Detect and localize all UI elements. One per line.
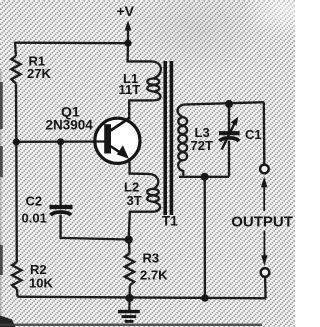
- output terminal bottom: [261, 268, 270, 277]
- Q1 emitter stroke: [111, 146, 127, 156]
- scan artifact bottom-left blob: [0, 316, 16, 327]
- transistor Q1 2N3904: [94, 118, 140, 164]
- node emitter/C2/R3 junction: [125, 236, 133, 244]
- node base-left junction: [13, 138, 20, 145]
- svg-text:R3: R3: [143, 250, 160, 265]
- node +V junction: [124, 40, 131, 47]
- node ground junction: [126, 294, 134, 302]
- svg-text:C1: C1: [245, 127, 262, 142]
- scan shading dark patch top-center: [124, 0, 268, 76]
- wire L1 bottom to Q1 collector: [129, 100, 153, 119]
- svg-text:10K: 10K: [29, 275, 53, 290]
- output terminal top: [260, 165, 269, 174]
- Q1 base lead: [94, 140, 105, 142]
- capacitor C1 (variable) plates: [219, 133, 240, 141]
- capacitor C2 plates: [50, 207, 73, 215]
- scan artifact left edge streak 3: [0, 245, 3, 275]
- C2 top plate: [50, 205, 73, 209]
- svg-text:OUTPUT: OUTPUT: [231, 214, 293, 231]
- svg-text:C2: C2: [26, 193, 43, 208]
- scan artifact left paper edge line: [0, 70, 2, 327]
- wire C1 bottom lead: [228, 141, 230, 177]
- svg-text:11T: 11T: [119, 82, 141, 97]
- ground bar 2: [122, 315, 137, 318]
- Q1 collector stroke: [111, 118, 131, 131]
- node C2 branch junction: [57, 138, 64, 145]
- resistor R1: [11, 56, 20, 84]
- transformer T1 core bar 2: [170, 61, 174, 215]
- +V arrow: [125, 21, 132, 31]
- ground bar 1: [118, 310, 140, 313]
- output down arrow: [261, 231, 267, 266]
- svg-text:0.01: 0.01: [22, 210, 47, 225]
- wire left rail middle segment (R1 to base junction): [15, 84, 18, 143]
- svg-text:27K: 27K: [27, 66, 51, 81]
- scan artifact left edge streak 2: [0, 146, 3, 177]
- resistor R2: [12, 262, 21, 289]
- wire C1 top lead: [228, 104, 230, 132]
- svg-text:2N3904: 2N3904: [46, 117, 94, 132]
- wire C2 bottom lead and horizontal to emitter junction: [61, 215, 129, 240]
- wire bottom rail: [18, 297, 267, 299]
- scan artifact left edge streak 1: [0, 82, 3, 129]
- svg-text:72T: 72T: [191, 138, 213, 153]
- C1 bottom plate (curved): [220, 138, 240, 141]
- ground: [118, 298, 140, 321]
- node tank top junction: [225, 100, 233, 108]
- wire output bottom terminal to bottom rail corner: [264, 277, 267, 298]
- wire Q1 emitter down and over to L2: [129, 161, 148, 174]
- wire tank top rail (L3 top to right corner): [183, 102, 263, 104]
- wire right corner down to output top terminal: [263, 102, 266, 164]
- wire +V lead: [127, 27, 129, 43]
- Q1 base bar: [104, 124, 111, 153]
- scan artifact bottom edge line: [0, 324, 262, 327]
- wire top rail from left rail to +V node: [15, 42, 128, 45]
- svg-text:T1: T1: [162, 214, 178, 229]
- ground stub: [128, 298, 131, 310]
- C1 top plate: [219, 131, 240, 135]
- capacitor C1 trimmer arrow: [222, 117, 239, 150]
- Q1 body circle: [95, 118, 140, 163]
- svg-text:2.7K: 2.7K: [140, 267, 168, 282]
- wire L2 bottom to emitter junction: [129, 212, 153, 240]
- wire tank bottom junction down to bottom rail: [204, 177, 207, 298]
- ground bar 3: [125, 320, 134, 323]
- wire emitter junction down to R3: [128, 240, 131, 254]
- wire R3 to ground junction: [128, 285, 131, 298]
- transformer T1 core bar 1: [163, 61, 167, 215]
- inductor L1 (11T primary top): [147, 61, 161, 100]
- wire left rail lower segment (base junction to R2): [15, 142, 18, 262]
- node bottom rail junction: [201, 294, 209, 302]
- resistor R3: [125, 254, 134, 286]
- svg-text:+V: +V: [117, 3, 135, 19]
- C2 bottom plate (curved): [51, 212, 72, 215]
- wire left rail top segment (corner to R1): [14, 42, 17, 56]
- wire tank bottom rail (L3 bottom to C1): [179, 176, 229, 178]
- wire +V node down to L1 top: [128, 43, 153, 61]
- wire base (left rail to Q1 base): [16, 140, 105, 143]
- inductor L3 (72T secondary): [178, 105, 188, 177]
- node tank bottom junction: [201, 173, 209, 181]
- wire left rail bottom segment (R2 to bottom corner): [16, 289, 19, 297]
- inductor L2 (3T feedback bottom): [147, 174, 160, 212]
- scan shading light patch top-right: [244, 0, 320, 40]
- svg-text:3T: 3T: [127, 193, 142, 208]
- output up arrow: [261, 177, 267, 211]
- Q1 emitter arrowhead: [117, 145, 129, 159]
- wire C2 branch vertical (base wire down to C2): [59, 142, 61, 205]
